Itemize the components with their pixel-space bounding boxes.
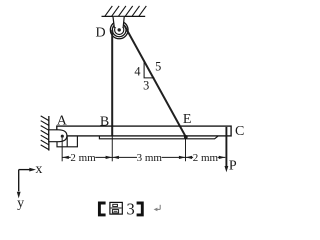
caption bracket left bbox=[99, 203, 105, 215]
extension line at A bbox=[61, 138, 63, 161]
dimension line A-B bbox=[62, 156, 112, 158]
svg-text:4: 4 bbox=[134, 64, 140, 78]
caption glyph tu (figure) bbox=[110, 202, 122, 214]
svg-text:D: D bbox=[95, 25, 105, 40]
pin at A bbox=[61, 135, 64, 138]
pulley hub bbox=[115, 25, 124, 34]
clevis support at A bbox=[49, 130, 67, 142]
cable D-E (diagonal) bbox=[125, 26, 186, 137]
svg-text:C: C bbox=[235, 124, 244, 139]
wall line bbox=[48, 116, 50, 151]
caption bracket right bbox=[137, 203, 143, 215]
dimension text 2 mm (A-B) bbox=[71, 152, 96, 162]
ceiling line bbox=[102, 15, 146, 17]
beam ABC bbox=[57, 126, 231, 136]
cable anchor blob at E bbox=[184, 135, 188, 139]
return mark bbox=[154, 205, 161, 211]
plate under beam B-E bbox=[99, 136, 218, 139]
svg-text:2 mm: 2 mm bbox=[193, 152, 219, 164]
svg-text:P: P bbox=[229, 159, 237, 174]
svg-text:E: E bbox=[183, 112, 192, 127]
svg-text:2 mm: 2 mm bbox=[70, 152, 96, 164]
svg-text:3: 3 bbox=[143, 78, 149, 92]
cable B-D (vertical) bbox=[111, 30, 113, 136]
svg-text:3: 3 bbox=[126, 200, 134, 219]
svg-text:B: B bbox=[100, 114, 109, 129]
svg-text:3 mm: 3 mm bbox=[137, 152, 163, 164]
slope triangle bbox=[144, 61, 154, 78]
pulley bracket bbox=[113, 17, 124, 27]
svg-text:5: 5 bbox=[155, 60, 161, 74]
extension line at B bbox=[111, 136, 113, 161]
dimension line B-E bbox=[112, 156, 185, 158]
dimension text 3 mm (B-E) bbox=[137, 152, 162, 162]
dimension arrows bbox=[62, 156, 225, 159]
pulley U1 outer sheave bbox=[110, 21, 128, 39]
dimension text 2 mm (E-C) bbox=[193, 152, 218, 162]
step bracket under A bbox=[57, 136, 77, 147]
dimension line E-P bbox=[186, 156, 226, 158]
svg-text:y: y bbox=[17, 196, 24, 211]
svg-text:A: A bbox=[57, 113, 68, 128]
coordinate axes bbox=[19, 169, 32, 171]
pulley axle dot bbox=[118, 28, 121, 31]
wall hatching bbox=[41, 116, 49, 150]
extension line at E bbox=[185, 138, 187, 162]
svg-text:x: x bbox=[35, 162, 42, 177]
ceiling hatching bbox=[105, 6, 146, 16]
pulley groove ring bbox=[112, 23, 126, 37]
force P arrow bbox=[225, 127, 227, 167]
